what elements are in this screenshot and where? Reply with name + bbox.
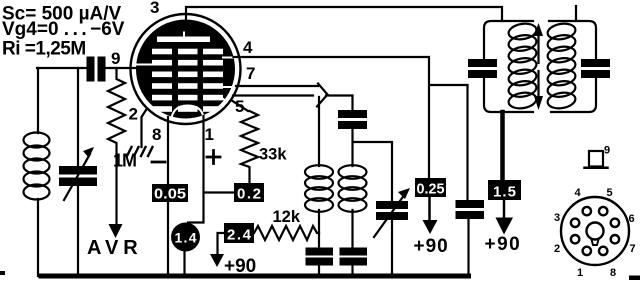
svg-text:1: 1 (577, 267, 583, 279)
wire secondary output stub (575, 6, 577, 21)
label +90 first (224, 256, 256, 277)
IF transformer T1 right winding outline (549, 21, 596, 112)
wire 2.4 left lead to +90 arrow (218, 233, 225, 254)
inductor L2 (305, 165, 333, 212)
label pin 4 (243, 38, 253, 57)
svg-text:4: 4 (243, 38, 253, 57)
label pin 9 (111, 49, 120, 68)
wire heavy B+ lead (500, 112, 505, 180)
margin mark bottom left (0, 271, 5, 275)
wire grid pin9 from coupling cap to tube (37, 67, 137, 69)
svg-text:1.4: 1.4 (175, 230, 197, 246)
svg-text:3: 3 (554, 212, 560, 224)
component box 0.05 (152, 184, 188, 203)
svg-text:8: 8 (610, 267, 616, 279)
svg-text:9: 9 (604, 145, 610, 157)
label pin 3 (150, 0, 159, 17)
label +90 second (414, 236, 449, 257)
svg-text:2: 2 (554, 243, 560, 255)
wire pin 4 screen lead (234, 57, 469, 276)
svg-text:8: 8 (152, 125, 161, 144)
caption fragment bottom right (629, 276, 640, 281)
tube parameter text Vg4 (2, 19, 125, 40)
tuning arrow up (534, 23, 543, 63)
svg-text:5: 5 (607, 187, 613, 199)
tube parameter text Ri (2, 39, 86, 60)
svg-text:0.05: 0.05 (154, 186, 186, 203)
capacitor C10 secondary (581, 59, 610, 78)
svg-text:Vg4=0 ...−6V: Vg4=0 ...−6V (2, 19, 125, 40)
svg-text:+90: +90 (485, 234, 522, 255)
wire below C6 (353, 129, 393, 201)
inductor T1 secondary coil (546, 22, 576, 110)
tuning arrow down (534, 71, 543, 110)
svg-text:AVR: AVR (87, 237, 143, 259)
wire right choke branch (351, 210, 353, 276)
label AVR (87, 237, 143, 259)
wire pin 1 lead (188, 116, 234, 223)
wire tuning cap branch (77, 68, 79, 276)
svg-text:2: 2 (129, 105, 138, 124)
inductor T1 primary coil (507, 22, 537, 110)
label pin 8 (152, 125, 161, 144)
svg-text:0.2: 0.2 (237, 186, 261, 203)
wire below meter (183, 252, 185, 277)
variable capacitor C7 (374, 188, 410, 237)
capacitor C4 (306, 248, 334, 266)
arrow +90 below 2.4 (210, 254, 224, 267)
svg-text:33k: 33k (259, 146, 287, 164)
wire pin 8 cathode lead (167, 117, 169, 276)
resistor R2 33k (241, 111, 258, 183)
capacitor C5 (340, 248, 368, 266)
capacitor C9 primary (468, 59, 497, 78)
svg-text:4: 4 (575, 187, 582, 199)
inductor L1 antenna coil (24, 133, 50, 200)
component box 0.25 (415, 178, 446, 198)
component box 0.2 (234, 183, 264, 203)
tube parameter text Sc (2, 4, 122, 25)
svg-text:0.25: 0.25 (417, 182, 445, 198)
label pin 1 (205, 125, 214, 144)
meter circle 1.4 (171, 223, 200, 252)
wire from arrow tip (326, 96, 353, 111)
wire below C7 (391, 220, 393, 276)
arrow to AVR (109, 224, 123, 238)
label 1M (113, 151, 136, 171)
resistor R1 1M (108, 68, 125, 224)
svg-text:3: 3 (150, 0, 159, 17)
svg-text:1.5: 1.5 (493, 184, 516, 201)
svg-text:12k: 12k (273, 208, 301, 226)
arrow +90 below 1.5 (496, 200, 514, 235)
capacitor C8 bypass (456, 200, 485, 219)
ground (127, 147, 153, 156)
socket pin labels (554, 187, 636, 279)
component box 1.5 (488, 180, 521, 201)
label 12k (273, 208, 301, 226)
svg-text:1: 1 (205, 125, 214, 144)
svg-text:Ri =1,25M: Ri =1,25M (2, 39, 86, 60)
minus sign near pin 8 (152, 161, 165, 164)
label pin 5 (235, 97, 244, 116)
label top cap 9 (604, 145, 610, 157)
hollow arrow pin 7 (233, 84, 328, 107)
wire pin2 to ground (142, 110, 147, 147)
wire plate pin3 to transformer top (186, 7, 502, 21)
inductor L3 (339, 165, 367, 212)
svg-text:7: 7 (246, 64, 255, 83)
svg-text:7: 7 (630, 243, 636, 255)
resistor R3 12k (254, 226, 319, 240)
wire left tank branch (37, 68, 39, 276)
plus sign near pin 1 (207, 151, 220, 164)
top cap symbol (585, 151, 608, 168)
arrow +90 below 0.25 (423, 197, 438, 234)
svg-text:6: 6 (629, 213, 635, 225)
svg-text:9: 9 (111, 49, 120, 68)
svg-text:1M: 1M (113, 151, 136, 171)
vacuum tube U1 envelope and electrodes (131, 14, 241, 124)
svg-text:+90: +90 (414, 236, 449, 257)
label 33k (259, 146, 287, 164)
IF transformer T1 left winding outline (484, 21, 533, 112)
ground rail bottom (41, 274, 469, 279)
label +90 third (485, 234, 522, 255)
capacitor C1 coupling (grid) (87, 57, 106, 82)
label pin 2 (129, 105, 138, 124)
svg-text:2.4: 2.4 (227, 227, 252, 244)
wire pin 5 to resistor (231, 100, 248, 111)
wire left choke branch (318, 97, 320, 276)
component box 2.4 (224, 223, 254, 244)
tube socket base diagram (561, 197, 629, 265)
variable capacitor C2 tuning (59, 147, 97, 200)
label pin 7 (246, 64, 255, 83)
capacitor C6 series (338, 110, 367, 129)
